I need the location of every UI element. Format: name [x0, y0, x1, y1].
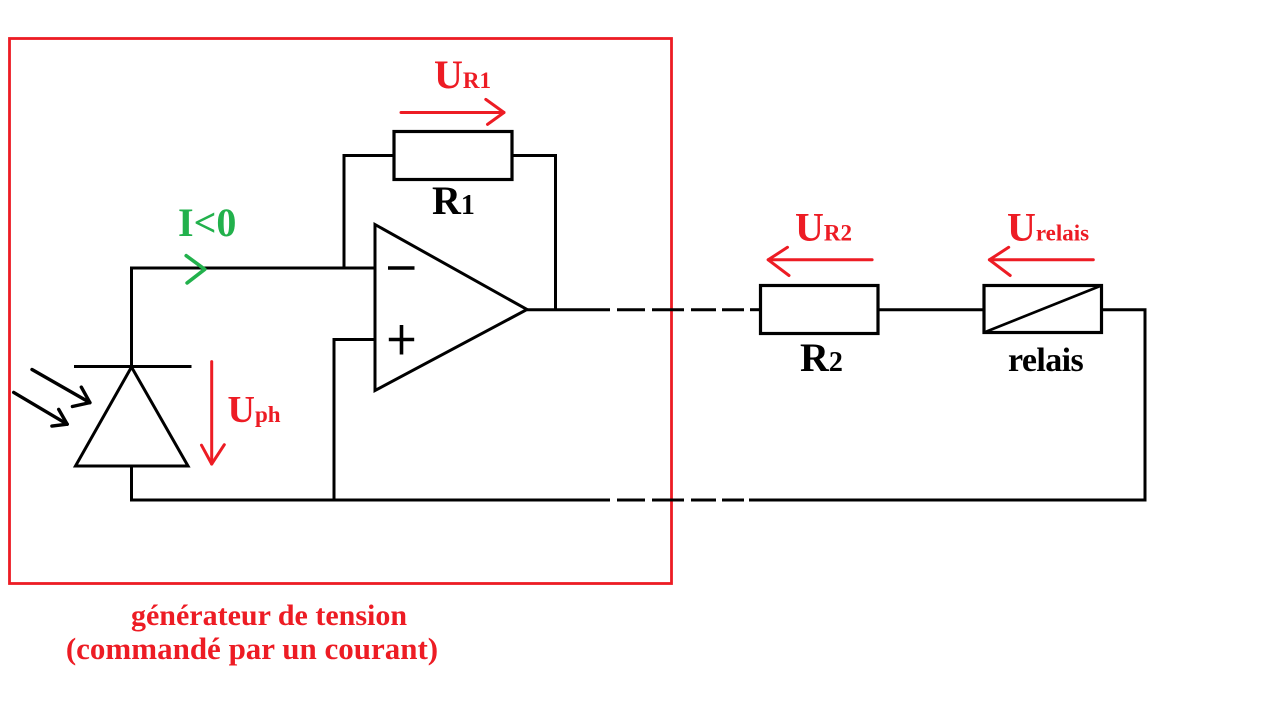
op-amp plus sign: [389, 325, 414, 355]
light arrow 2: [14, 392, 67, 426]
svg-text:(commandé par un courant): (commandé par un courant): [66, 631, 438, 666]
wire: R1 right lead: [511, 154, 557, 157]
red arrow U_relais (leftward): [989, 247, 1093, 275]
wire: bottom return solid left segment: [130, 499, 610, 502]
wire: bottom dashed segments: [617, 499, 744, 502]
wire: non-inverting input vertical down: [333, 338, 336, 502]
green current arrow chevron: [186, 256, 205, 283]
resistor R2: [761, 286, 879, 334]
wire: right vertical down: [1144, 310, 1147, 502]
wire: feedback right vertical: [554, 156, 557, 310]
op-amp minus sign: [388, 266, 415, 270]
wire: R2 to relais: [878, 308, 985, 311]
relay coil box: [984, 286, 1102, 333]
resistor R1: [394, 132, 512, 180]
wire: output dashed segments (top): [617, 308, 762, 311]
red arrow U_R2 (leftward): [768, 247, 872, 275]
wire: photodiode top vertical: [130, 268, 133, 367]
wire: feedback left vertical: [343, 154, 346, 268]
photodiode bottom vertical wire: [130, 466, 133, 502]
red arrow U_ph (downward): [202, 362, 225, 464]
wire: inverting input horizontal (photodiode to op-amp): [130, 267, 376, 270]
red arrow U_R1 (rightward): [401, 99, 504, 124]
photodiode D1: cathode bar: [74, 365, 192, 368]
wire: bottom return solid right segment: [749, 499, 1147, 502]
svg-text:I<0: I<0: [178, 200, 236, 245]
wire: relais to right vertical: [1101, 308, 1147, 311]
generator boundary box (red): [10, 39, 672, 584]
relay diagonal line: [984, 286, 1102, 333]
svg-text:générateur de tension: générateur de tension: [131, 599, 407, 632]
op-amp U1 triangle: [375, 225, 527, 391]
wire: R1 left lead: [343, 154, 396, 157]
wire: op-amp output solid segment: [527, 308, 610, 311]
svg-text:relais: relais: [1008, 342, 1083, 379]
light arrow 1: [32, 370, 90, 407]
photodiode D1: triangle: [76, 367, 189, 466]
wire: non-inverting input horizontal: [334, 338, 376, 341]
